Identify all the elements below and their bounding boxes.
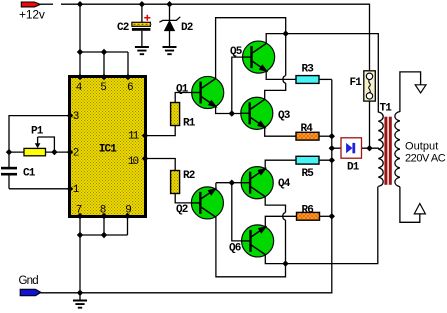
svg-text:1: 1 [73, 184, 80, 196]
svg-text:F1: F1 [350, 77, 363, 89]
svg-text:7: 7 [76, 204, 83, 216]
svg-text:D1: D1 [347, 162, 360, 174]
svg-text:+12v: +12v [19, 7, 45, 21]
svg-text:Output: Output [405, 141, 438, 153]
svg-text:T1: T1 [380, 103, 393, 115]
svg-text:R4: R4 [301, 123, 314, 135]
svg-text:R1: R1 [183, 118, 196, 130]
svg-text:2: 2 [73, 147, 80, 159]
svg-text:5: 5 [100, 82, 107, 94]
svg-text:Q5: Q5 [230, 46, 243, 58]
svg-text:R6: R6 [302, 204, 314, 216]
svg-text:R5: R5 [302, 168, 315, 180]
svg-text:220V AC: 220V AC [405, 153, 446, 165]
svg-text:C2: C2 [117, 22, 129, 34]
svg-text:10: 10 [128, 156, 139, 168]
svg-text:Q2: Q2 [176, 204, 188, 216]
svg-text:R3: R3 [302, 63, 315, 75]
svg-text:Gnd: Gnd [19, 275, 39, 287]
svg-text:R2: R2 [183, 170, 195, 182]
svg-text:C1: C1 [23, 168, 36, 180]
svg-text:9: 9 [125, 204, 132, 216]
svg-text:Q4: Q4 [278, 178, 291, 190]
svg-text:Q1: Q1 [176, 84, 189, 96]
svg-text:3: 3 [73, 111, 80, 123]
svg-text:IC1: IC1 [99, 144, 117, 156]
svg-text:Q3: Q3 [278, 110, 291, 122]
svg-text:8: 8 [100, 204, 107, 216]
svg-text:Q6: Q6 [229, 243, 241, 255]
svg-text:4: 4 [76, 82, 83, 94]
svg-text:6: 6 [127, 82, 134, 94]
svg-text:D2: D2 [181, 22, 193, 34]
svg-text:P1: P1 [31, 126, 44, 138]
